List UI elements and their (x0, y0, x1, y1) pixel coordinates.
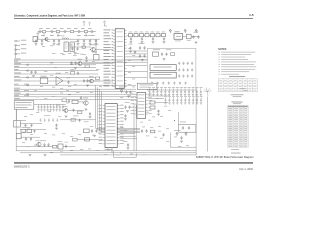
capacitor C114 (77, 39, 79, 43)
filter FL101 (64, 42, 68, 52)
capacitor C233 (77, 72, 79, 76)
resistor network R203 (145, 33, 149, 36)
transistor Q201 (90, 47, 96, 51)
IC U402 left pin labels (99, 105, 103, 144)
label Q202 (78, 58, 83, 61)
label Q203 (89, 75, 94, 78)
buffer block Z301 (137, 83, 157, 89)
IC U403 body (137, 92, 146, 118)
label R405 (63, 96, 67, 99)
wire enclosure right edge (195, 90, 197, 155)
capacitor C451 (24, 124, 26, 128)
notes sub mark (231, 94, 244, 97)
label bottom left (40, 139, 46, 142)
capacitor C101 (56, 30, 59, 32)
wire rail stub 1 (57, 33, 59, 37)
ground below C114 (77, 44, 80, 46)
label Z451 (180, 121, 186, 124)
capacitor C501 (33, 129, 35, 133)
capacitor C306 (165, 53, 167, 57)
footer rule (14, 162, 253, 164)
supply B+ arrow 2 (184, 29, 186, 33)
resistor network R200 (129, 33, 133, 36)
ground C201 (141, 42, 144, 44)
wire J102 drop (15, 45, 17, 58)
IC U403 left pin labels (131, 94, 135, 114)
IC U201 left pin stubs (113, 30, 115, 86)
label Q403 (63, 105, 68, 108)
header rule (14, 18, 253, 20)
wire U402 pin east 1 (120, 133, 135, 135)
antenna mark above chain 2 (89, 22, 91, 26)
transistor Q501 (36, 142, 41, 146)
bus line labels (14, 59, 21, 99)
bypass capacitor row (37, 104, 64, 111)
transistor Q403 (63, 109, 68, 113)
capacitor C410 (125, 91, 127, 95)
label C236 (67, 77, 71, 80)
wire U403 link 1 (148, 95, 170, 97)
resistor R521 (151, 130, 155, 133)
resistor R501 (21, 129, 26, 132)
wire long bottom 3 (60, 154, 196, 156)
capacitor C406 (68, 100, 70, 104)
wire bottom rail (16, 146, 75, 148)
wire bus line 14 (14, 98, 136, 100)
inductor L102 (64, 31, 66, 33)
ground below C111 (41, 44, 44, 46)
label bottom right (174, 129, 181, 132)
resistor R431 (150, 101, 155, 104)
svg-text:NOTES:: NOTES: (218, 49, 227, 51)
label R204 (151, 31, 154, 34)
resistor R502 (27, 129, 32, 132)
label R501 row (22, 126, 31, 129)
wire R501 rail (21, 136, 40, 138)
wire bus line 5 (14, 70, 98, 72)
capacitor C303 (143, 54, 145, 58)
resistor R402 (72, 100, 78, 103)
VCO shield enclosure (147, 48, 196, 90)
wire bus line 1 (14, 59, 147, 61)
mixer stage box (153, 52, 159, 56)
capacitor C115 (83, 39, 85, 43)
transistor Q202 (77, 62, 82, 66)
resistor R233 (96, 77, 100, 80)
antenna connector J101 (33, 36, 37, 41)
table 2 cell text (228, 108, 247, 146)
label R203 (145, 31, 148, 34)
wire rail stub 0 (43, 33, 45, 37)
wire bus line 12 (14, 93, 136, 95)
VCO bottom capacitor row (151, 82, 187, 85)
wire stub above table 2 (240, 88, 248, 91)
op-amp U401 (56, 77, 63, 85)
wire to U402 bottom (75, 139, 103, 141)
label R206 (162, 31, 165, 34)
wire Q402 link (78, 101, 84, 103)
regulator U501 (16, 133, 21, 138)
capacitor C503 (30, 137, 32, 141)
label VCO top 2 (166, 48, 172, 51)
wire U402 pin east 0 (120, 130, 134, 132)
supply B+ arrow 1 (169, 29, 171, 33)
sub-circuit box Z451 (179, 125, 196, 133)
resistor R232 (71, 72, 75, 75)
capacitor C232 (74, 62, 76, 66)
wire bus line 8 (14, 80, 100, 82)
resistor R221 (82, 46, 85, 48)
capacitor C302 (139, 54, 141, 58)
table 1 title (229, 75, 245, 78)
wire bottom loop (114, 151, 137, 158)
capacitor C117 (95, 39, 97, 43)
ground C432 (157, 114, 160, 116)
IC U201 body (115, 29, 124, 89)
transistor Q402 (83, 101, 89, 105)
supply arrow bottom right 1 (176, 132, 178, 136)
capacitor C419 (128, 106, 130, 110)
capacitor C462 (188, 126, 190, 130)
resistor R503 (53, 145, 57, 148)
resistor R407 (71, 119, 75, 122)
capacitor C103 (84, 30, 87, 32)
wire down from J451 (16, 109, 18, 120)
label osc right (194, 31, 199, 34)
transistor Q101 (44, 37, 48, 41)
notes list lines (219, 52, 257, 75)
ground below C115 (83, 44, 86, 46)
ground C420 (124, 119, 127, 121)
capacitor C300 (139, 46, 141, 50)
label top chain 3 (53, 27, 57, 30)
capacitor C402 (34, 71, 36, 75)
label J102 pin 1 (21, 39, 27, 42)
discrete component grid row 1 (148, 88, 202, 96)
wire U402 bottom drop 2 (111, 148, 113, 153)
ground Q402 (85, 109, 88, 111)
label inside Y302 (154, 73, 172, 76)
label left of VCO (139, 42, 145, 45)
wire RF path second rail (33, 38, 100, 40)
ground U402 top (127, 96, 130, 98)
ground C202 (152, 42, 155, 44)
resistor R305 (171, 53, 175, 56)
wire bus bend 1 (96, 85, 141, 128)
ground VCO top (163, 59, 166, 61)
capacitor C505 (47, 143, 49, 147)
interface box J451 (14, 101, 34, 110)
ground Q403 (65, 116, 68, 118)
capacitor C415 (55, 124, 57, 128)
capacitor C222 (76, 47, 78, 51)
inductor L103 (78, 31, 80, 33)
resistor network R204 (151, 33, 155, 36)
capacitor C102 (70, 30, 73, 32)
wire mid link lower (60, 119, 96, 121)
bus line arrows (26, 64, 28, 95)
label chain2 5 (84, 34, 88, 37)
label top chain 7 (81, 27, 85, 30)
ground bottom right (180, 141, 183, 143)
capacitor C202 (152, 37, 154, 41)
filter FL102 (70, 42, 74, 52)
capacitor C432 (157, 110, 159, 114)
junction dot bottom (120, 152, 121, 153)
label VCO top (153, 48, 160, 51)
ground Q202 (74, 68, 77, 70)
label J102 pin 3 (21, 47, 27, 50)
IC U402 inner labels (106, 106, 115, 144)
supply mark above IC (103, 21, 105, 26)
crystal Y201 inner mark (176, 35, 181, 37)
label under filter 0 (52, 52, 55, 55)
wire U402 pin east 3 (120, 138, 137, 140)
label C215 (129, 43, 133, 46)
capacitor C221 (71, 47, 73, 51)
capacitor C211 (198, 35, 200, 39)
label cap row lower (44, 114, 51, 117)
wire J451 feed (34, 103, 66, 105)
label R201 (134, 31, 137, 34)
IC U403 right pin labels (148, 94, 151, 114)
capacitor C201 (141, 37, 143, 41)
wire rail riser (37, 32, 39, 40)
IC U402 right pin stubs (117, 106, 119, 144)
capacitor C408 (89, 112, 91, 116)
label Z401 (41, 75, 47, 78)
capacitor C210 (192, 35, 194, 39)
label mid lower 2 (84, 120, 89, 123)
capacitor C420 (124, 114, 126, 118)
resistor R405 (62, 99, 67, 102)
wire bus line 4 (14, 67, 96, 69)
mixer block Z101 (94, 55, 100, 61)
resistor R511 (84, 129, 90, 133)
discrete grid row 2 labels (164, 95, 202, 98)
wire bus bend 4 (102, 91, 141, 132)
ground bottom left 1 (29, 154, 32, 156)
table 1 cell text (219, 80, 256, 90)
svg-text:July 1, 2002: July 1, 2002 (239, 167, 254, 171)
antenna mark above chain (83, 21, 85, 26)
capacitor C100 (42, 30, 45, 32)
wire U201 to VCO 5 (127, 71, 148, 73)
supply B+ arrow 3 (195, 29, 197, 33)
wire U201 to VCO 0 (127, 50, 148, 52)
label mid lower (73, 115, 79, 118)
IC U402 right pin labels (120, 105, 123, 144)
label chain2 4 (77, 34, 81, 37)
label R232 (71, 68, 75, 71)
capacitor C216 (134, 51, 136, 55)
label chain2 6 (91, 34, 95, 37)
capacitor C506 (65, 145, 67, 149)
transistor Q203 (88, 79, 93, 83)
capacitor C452 (30, 124, 32, 128)
capacitor C235 (86, 79, 88, 83)
label chain2 1 (41, 34, 45, 37)
discrete grid row 1 labels (148, 86, 202, 89)
VCO right capacitor bank (178, 62, 193, 78)
filter FL101 hatch (65, 44, 67, 48)
wire into mixer (95, 39, 97, 54)
wire bus line 10 (14, 88, 136, 90)
capacitor C111 (41, 39, 43, 43)
ground bottom left 2 (44, 154, 47, 156)
wire right thin vertical (206, 97, 208, 152)
IC U201 inner label (117, 32, 123, 82)
connector J102 pin stack (15, 40, 20, 55)
label J452 (21, 119, 26, 122)
capacitor C409 (78, 119, 80, 123)
label under filter 1 (60, 52, 63, 55)
ground C203 (163, 42, 166, 44)
capacitor C223 (85, 56, 87, 60)
wire U402 pin east 2 (120, 135, 136, 137)
label under filter 3 (76, 52, 79, 55)
wire bus bend 3 (100, 89, 141, 131)
wire osc link (183, 35, 187, 37)
capacitor C511 (91, 129, 93, 133)
capacitor C112 (53, 39, 55, 43)
resistor network R206 (162, 33, 166, 36)
label top chain 1 (39, 27, 43, 30)
label under filter 2 (68, 52, 71, 55)
ground osc cluster (195, 42, 198, 44)
wire lower link (20, 129, 46, 131)
resistor network R201 (134, 33, 138, 36)
ground below C110 (35, 44, 38, 46)
label R202 (140, 31, 143, 34)
capacitor C523 (162, 133, 164, 137)
ground Q203 (86, 85, 89, 87)
capacitor C110 (35, 39, 37, 43)
ground C223 (85, 61, 88, 63)
capacitor C521 (141, 129, 143, 133)
wire bottom-left vertical (15, 109, 17, 151)
ground below C117 (95, 44, 98, 46)
label top chain 4 (60, 27, 64, 30)
label C506 (65, 141, 69, 144)
node ANT input rail (38, 31, 96, 33)
IC U402 body (105, 104, 117, 148)
svg-text:6880902Z95-O: 6880902Z95-O (14, 167, 30, 169)
ground C215 (129, 51, 132, 53)
capacitor C116 (89, 39, 91, 43)
capacitor C301 (143, 46, 145, 50)
label top chain 5 (67, 27, 71, 30)
label chain2 3 (57, 34, 61, 37)
wire bus line 9 (14, 84, 136, 86)
label Y201 (175, 30, 180, 33)
IC U201 pin name column (104, 30, 114, 87)
wire long bottom 2 (20, 152, 196, 154)
capacitor C522 (145, 129, 147, 133)
table 1 grid (218, 79, 257, 92)
wire cluster rail (70, 46, 91, 48)
ground J452 area (27, 129, 30, 131)
wire Q403 link (68, 110, 84, 112)
capacitor C231 (70, 62, 72, 66)
audio block Z401 (40, 78, 48, 84)
svg-text:Schematics, Component Location: Schematics, Component Location Diagrams,… (14, 13, 85, 17)
ground Q201 area (74, 53, 77, 55)
wire bus line 2 (14, 61, 147, 63)
table 2 header strip (228, 106, 248, 107)
resistor network R205 (156, 33, 160, 36)
label right of U402 pins (125, 101, 130, 104)
resistor network R202 (140, 33, 144, 36)
ground below C113 (58, 44, 61, 46)
label J102 pin 4 (21, 52, 27, 55)
wire top boxes rail (127, 35, 166, 37)
label Q201 (90, 43, 95, 46)
ground C408 (89, 117, 92, 119)
table 2 title (232, 102, 243, 105)
label inside J451 (16, 102, 32, 108)
capacitor C411 (129, 91, 131, 95)
label Z301 (140, 84, 154, 87)
supply arrow U402 area (120, 89, 122, 93)
wire mid vertical bus 2 (135, 105, 137, 151)
capacitor C405 (80, 96, 82, 100)
capacitor C461 (182, 126, 184, 130)
wire Q203 out (94, 80, 114, 82)
IC U403 inner labels (138, 95, 144, 116)
wire long bottom 1 (16, 150, 196, 152)
VCO module Y302 (150, 72, 176, 78)
capacitor C401 (30, 71, 32, 75)
wire U201 to VCO 1 (127, 53, 148, 55)
scattered component labels (22, 26, 189, 156)
label R200 (129, 31, 132, 34)
wire bus line 7 (14, 76, 100, 78)
wire drop to sub-block (178, 112, 180, 125)
wire bus line 11 (14, 91, 136, 93)
label mixer (92, 51, 97, 54)
inductor L100 (39, 31, 41, 33)
wire R431 out (155, 102, 168, 104)
label top chain 2 (46, 27, 50, 30)
discrete component grid row 2 (164, 97, 202, 104)
table 2 grid (228, 105, 249, 147)
ground bottom mid (93, 135, 96, 137)
wire Q202 out (82, 63, 113, 65)
jack J452 (14, 120, 21, 127)
wire bus line 13 (14, 96, 136, 98)
wire U402 bottom drop 1 (107, 148, 109, 151)
capacitor C512 (95, 129, 97, 133)
resistor R432 (150, 106, 155, 109)
label C223 (82, 53, 86, 56)
label Z301 line2 (140, 86, 150, 89)
capacitor C203 (163, 37, 165, 41)
IC U402 left pin stubs (103, 106, 105, 144)
ground C200 (130, 42, 133, 44)
label Z501 top (58, 140, 63, 143)
ground below C116 (89, 44, 92, 46)
capacitor C407 (72, 109, 74, 113)
resistor R513 (73, 138, 78, 141)
svg-text:8486577Z02-O VHF RF Board Sch: 8486577Z02-O VHF RF Board Schematic Diag… (196, 155, 254, 159)
label Q501 (36, 139, 40, 142)
label J102 pin 2 (21, 43, 27, 46)
ground C415 (55, 128, 58, 130)
capacitor C513 (127, 143, 129, 147)
label under U402 (105, 148, 113, 151)
resistor R231 (85, 65, 89, 68)
